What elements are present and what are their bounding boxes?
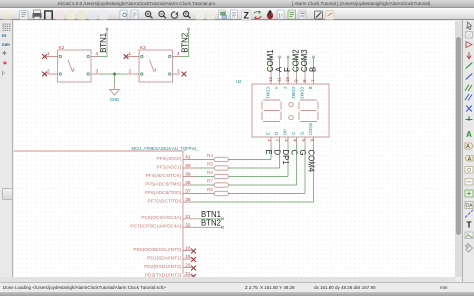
svg-text:R5: R5 <box>207 161 213 167</box>
svg-text:8: 8 <box>302 79 307 82</box>
svg-text:1: 1 <box>73 67 76 72</box>
svg-text:K3: K3 <box>140 45 146 50</box>
svg-text:1: 1 <box>129 51 132 56</box>
svg-text:DP1: DP1 <box>281 150 290 165</box>
svg-text:21: 21 <box>185 271 191 276</box>
svg-text:Z: Z <box>243 10 249 20</box>
svg-text:38: 38 <box>185 180 191 185</box>
svg-text:PF7(ADC7/TDI): PF7(ADC7/TDI) <box>147 198 181 204</box>
svg-text:41: 41 <box>185 155 191 160</box>
svg-text:R6: R6 <box>207 170 213 176</box>
svg-text:COM4: COM4 <box>307 150 316 173</box>
svg-text:1: 1 <box>47 51 50 56</box>
svg-text:R8: R8 <box>207 187 213 193</box>
svg-text:PC6(OC3A/OC4A): PC6(OC3A/OC4A) <box>141 215 181 221</box>
svg-text:1²: 1² <box>278 14 283 20</box>
svg-text:32: 32 <box>185 222 191 227</box>
svg-text:BTN2: BTN2 <box>180 33 189 53</box>
svg-text:PD0(OC0B/SCL/INT0): PD0(OC0B/SCL/INT0) <box>133 247 181 253</box>
svg-text:C: C <box>291 132 296 135</box>
svg-text:6: 6 <box>310 139 315 142</box>
svg-text:31: 31 <box>185 214 191 219</box>
svg-text:A: A <box>274 87 279 90</box>
svg-text:PF5(ADC5/TMS): PF5(ADC5/TMS) <box>145 181 182 187</box>
svg-text:DA: DA <box>466 203 474 209</box>
svg-text:B: B <box>309 67 318 72</box>
svg-text:3: 3 <box>284 139 289 142</box>
svg-text:BTN2: BTN2 <box>201 219 221 228</box>
svg-text:36: 36 <box>185 197 191 202</box>
svg-text:37: 37 <box>185 189 191 194</box>
svg-text:39: 39 <box>185 172 191 177</box>
svg-text:B: B <box>308 87 313 90</box>
svg-text:18: 18 <box>185 246 191 251</box>
svg-text:D: D <box>274 132 279 135</box>
svg-text:G: G <box>298 150 307 156</box>
svg-text:A: A <box>466 130 472 139</box>
svg-text:F: F <box>283 87 288 90</box>
svg-text:COM2: COM2 <box>291 87 296 100</box>
svg-text:R4: R4 <box>207 153 213 159</box>
svg-text:PD2(RXD1/INT2): PD2(RXD1/INT2) <box>144 264 181 270</box>
svg-text:2: 2 <box>47 69 50 74</box>
svg-text:U2: U2 <box>236 79 242 84</box>
svg-text:D: D <box>273 150 282 156</box>
svg-text:PF4(ADC4/TCK): PF4(ADC4/TCK) <box>146 173 182 179</box>
svg-text:4: 4 <box>293 139 298 142</box>
svg-text:40: 40 <box>185 163 191 168</box>
svg-text:C: C <box>290 150 299 156</box>
svg-text:PC7(ICP3/CLK0/OC4A): PC7(ICP3/CLK0/OC4A) <box>130 224 181 230</box>
svg-text:G: G <box>300 132 305 135</box>
svg-text:DP: DP <box>283 129 288 135</box>
svg-text:11: 11 <box>277 77 282 82</box>
svg-text:2: 2 <box>129 69 132 74</box>
svg-text:GND: GND <box>110 97 119 102</box>
svg-text:R7: R7 <box>207 178 213 184</box>
svg-text:PF1(ADC1): PF1(ADC1) <box>157 164 182 170</box>
svg-text:T: T <box>466 220 472 230</box>
svg-text:9: 9 <box>294 79 299 82</box>
svg-text:MCU_ATMEGA32U4-AU_TQFP44_: MCU_ATMEGA32U4-AU_TQFP44_ <box>132 146 200 151</box>
svg-text:3: 3 <box>177 69 180 74</box>
svg-text:3: 3 <box>96 69 99 74</box>
svg-text:1: 1 <box>154 67 157 72</box>
svg-text:20: 20 <box>185 263 191 268</box>
svg-text:COM4: COM4 <box>308 122 313 135</box>
svg-text:1: 1 <box>267 139 272 142</box>
svg-text:K2: K2 <box>59 45 65 50</box>
svg-text:7: 7 <box>311 79 316 82</box>
svg-text:A: A <box>466 144 470 150</box>
svg-text:12: 12 <box>268 76 273 82</box>
svg-text:BTN1: BTN1 <box>99 33 108 53</box>
svg-text:COM3: COM3 <box>300 87 305 100</box>
svg-text:PF6(ADC6/TDO): PF6(ADC6/TDO) <box>145 190 182 196</box>
svg-text:PD1(SDA/INT1): PD1(SDA/INT1) <box>147 255 182 261</box>
svg-text:19: 19 <box>185 254 191 259</box>
svg-text:10: 10 <box>285 76 290 82</box>
svg-text:E: E <box>264 150 273 155</box>
svg-text:COM1: COM1 <box>266 87 271 100</box>
svg-text:5: 5 <box>301 139 306 142</box>
svg-text:2: 2 <box>276 139 281 142</box>
svg-text:A: A <box>468 157 472 163</box>
svg-text:E: E <box>266 132 271 135</box>
svg-text:PF0(ADC0): PF0(ADC0) <box>157 156 182 162</box>
